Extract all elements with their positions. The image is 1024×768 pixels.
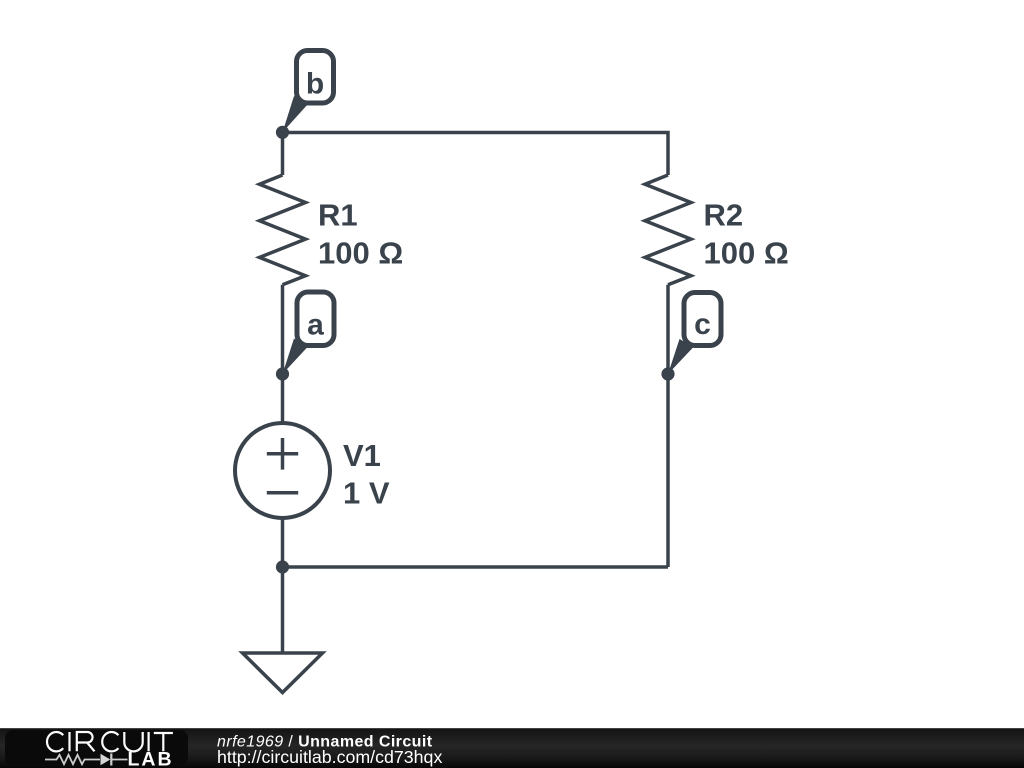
wire: R1 bottom lead to node a xyxy=(281,285,285,374)
svg-text:1 V: 1 V xyxy=(343,476,390,511)
C xyxy=(47,732,63,751)
I xyxy=(68,732,70,751)
node c flag xyxy=(661,293,721,381)
ground xyxy=(243,653,323,693)
svg-text:http://circuitlab.com/cd73hqx: http://circuitlab.com/cd73hqx xyxy=(217,747,442,767)
CircuitLab logo: CIRCUIT word xyxy=(47,732,173,751)
resistor R1 xyxy=(260,175,404,285)
wire: R1 top lead xyxy=(281,133,285,176)
U xyxy=(124,732,142,751)
node a flag xyxy=(276,292,334,381)
resistor R2 xyxy=(645,175,789,285)
junction dot at ground node xyxy=(276,560,289,573)
svg-text:R2: R2 xyxy=(704,198,744,233)
T xyxy=(154,733,173,751)
wire: V1 bottom to ground node xyxy=(281,518,285,567)
svg-text:LAB: LAB xyxy=(128,749,174,768)
wire: node a to V1 top xyxy=(281,374,285,423)
svg-text:100 Ω: 100 Ω xyxy=(318,236,403,271)
voltage source V1 xyxy=(235,423,390,518)
R xyxy=(77,732,95,751)
wire: top horizontal from node b to right branch xyxy=(283,133,669,176)
footer bar xyxy=(0,728,1024,768)
wire: R2 bottom lead to node c xyxy=(666,285,670,374)
node b flag xyxy=(276,51,334,139)
svg-text:100 Ω: 100 Ω xyxy=(704,236,789,271)
wire: node c down to bottom wire xyxy=(666,374,670,567)
wire: ground node to ground symbol xyxy=(281,567,285,653)
I xyxy=(148,732,150,751)
svg-text:R1: R1 xyxy=(318,198,358,233)
CircuitLab logo: resistor-diode line xyxy=(45,754,128,766)
svg-text:b: b xyxy=(306,68,324,101)
svg-text:c: c xyxy=(694,308,711,341)
svg-text:a: a xyxy=(307,309,324,342)
svg-text:V1: V1 xyxy=(343,438,381,473)
C xyxy=(102,732,118,751)
wire: bottom horizontal xyxy=(283,565,669,569)
